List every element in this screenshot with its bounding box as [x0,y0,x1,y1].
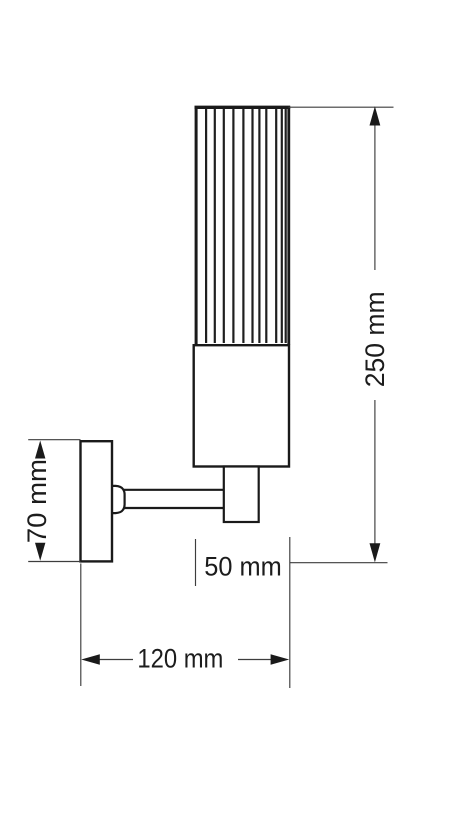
svg-text:250 mm: 250 mm [360,291,390,387]
70mm ext line bottom [28,561,80,563]
120mm dim line right segment [238,659,272,661]
glass shade right wall [287,106,290,344]
joint at wall plate [112,486,124,513]
70mm ext line top [28,439,80,441]
arrowhead 70mm bottom (down) [35,543,45,561]
120mm left ext line vertical [80,564,82,687]
glass ribs [206,109,286,343]
arm top line [124,489,224,491]
120mm right ext line vertical [289,537,291,688]
arrowhead 250mm top (up) [370,106,381,125]
120mm dim line left segment [98,659,133,661]
arrowhead 70mm top (up) [35,441,45,459]
dimension thin lines [28,107,393,688]
arrowhead 250mm bottom (down) [370,543,381,562]
stem below body [224,467,259,523]
250mm dim line upper segment [374,123,376,270]
arrowhead 120mm left [81,654,100,665]
wall plate [81,441,113,561]
svg-text:50 mm: 50 mm [204,552,281,582]
svg-text:70 mm: 70 mm [22,459,52,543]
glass shade left wall [195,106,198,344]
lamp body (socket cylinder) [194,345,289,466]
ext line bottom of 250mm [290,562,388,564]
arm bottom line [124,507,224,509]
svg-text:120 mm: 120 mm [137,644,223,674]
250mm dim line lower segment [374,400,376,546]
glass top bar [195,106,291,109]
ext line top of 250mm [289,106,394,108]
50mm left tick [195,539,197,586]
arrowhead 120mm right [271,654,290,665]
